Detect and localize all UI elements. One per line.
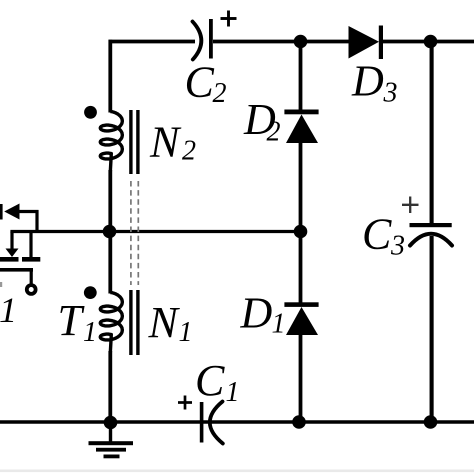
MOSFET S1 drain lead [29,232,32,259]
wire top rail left segment [109,40,196,44]
MOSFET S1 body diode cathode bar [0,204,3,220]
ground symbol bar 3 [104,455,120,459]
capacitor C1 plus sign [178,401,192,404]
svg-text:T: T [58,296,86,345]
svg-text:C: C [362,210,392,259]
MOSFET S1 gate lead [30,270,33,284]
capacitor C3 plus sign [402,204,419,206]
capacitor C2 curved plate [193,22,202,60]
svg-text:2: 2 [213,78,227,109]
svg-text:D: D [240,289,273,338]
capacitor C1 curved plate [210,402,223,444]
MOSFET S1 gate terminal circle [27,285,36,294]
transformer N2 polarity dot [84,106,97,119]
junction node drain-N1-N2 [103,225,117,239]
capacitor C3 straight plate [410,223,452,227]
wire mid horizontal drain node to D1-D2 node [10,230,300,233]
wire left vertical upper [108,40,112,113]
wire right vertical upper top rail to C3 [430,40,434,225]
svg-text:C: C [195,356,225,405]
bottom edge artifact [0,470,474,473]
diode D2 triangle [286,115,318,144]
MOSFET S1 gate bar [0,268,33,272]
svg-text:N: N [148,298,181,347]
junction node top C2-D2-D3 [294,35,308,49]
MOSFET S1 channel bar left [0,257,19,262]
svg-text:1: 1 [179,317,193,348]
capacitor C3 curved plate [410,234,452,246]
transformer N1 polarity dot [84,286,97,299]
wire body diode to drain node [35,210,38,233]
MOSFET S1 label fragment edge mark [0,282,2,287]
transformer T1 secondary winding N2 coil [100,112,122,173]
svg-text:3: 3 [383,78,398,109]
MOSFET S1 source lead [10,232,13,251]
junction node ground [104,416,118,430]
junction node D1-D2 mid [294,225,308,239]
junction node top right D3-C3 [424,35,438,49]
transformer core dashed line left [130,181,132,285]
svg-text:1: 1 [83,317,97,348]
diode D3 triangle [349,26,380,59]
wire middle vertical D2 anode to mid node [299,142,303,232]
ground symbol bar 2 [96,448,126,452]
transformer core solid bar left N1 section [129,290,132,355]
diode D1 triangle [286,307,318,335]
capacitor C2 straight plate [209,19,213,59]
svg-text:N: N [149,118,182,167]
wire middle vertical mid node to D1 cathode [299,231,303,303]
junction node bottom C1-D1 [292,415,306,429]
svg-text:C: C [185,58,215,107]
svg-text:1: 1 [272,309,286,340]
wire middle vertical top D2 cathode to top rail [299,42,303,111]
MOSFET S1 source arrow [6,249,19,258]
junction node bottom right C3 [424,415,438,429]
ground symbol stem [109,422,112,442]
ground symbol bar 1 [89,441,134,445]
MOSFET S1 body diode anode lead [19,210,39,213]
MOSFET S1 channel bar right [22,257,40,262]
wire bottom rail [0,420,474,423]
capacitor C2 plus sign [221,17,237,20]
svg-text:D: D [351,57,384,106]
transformer core dashed line right [137,181,139,285]
transformer core solid bar left N2 section [129,110,132,174]
diode D3 cathode bar [379,26,383,60]
wire top rail right segment [382,40,474,44]
wire middle vertical D1 anode to bottom rail [299,334,303,422]
transformer T1 primary winding N1 coil [100,293,122,354]
diode D2 cathode bar [284,110,318,115]
wire left vertical lower [108,351,112,423]
diode D1 cathode bar [284,302,318,307]
transformer core solid bar right N1 section [136,290,139,355]
svg-text:2: 2 [182,136,196,167]
svg-text:3: 3 [390,231,405,262]
svg-text:1: 1 [226,377,240,408]
wire top rail mid segment [213,40,349,44]
transformer core solid bar right N2 section [136,110,139,174]
svg-text:1: 1 [0,290,17,330]
capacitor C1 straight plate [200,402,204,443]
wire right vertical lower C3 to bottom rail [430,236,434,422]
svg-text:2: 2 [267,117,281,148]
MOSFET S1 body diode triangle [4,204,19,220]
wire left vertical middle [108,170,112,294]
